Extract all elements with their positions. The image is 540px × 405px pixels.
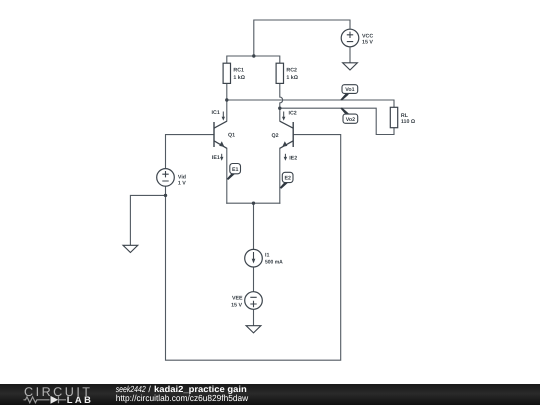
svg-text:500 mA: 500 mA	[265, 259, 283, 265]
svg-text:Q1: Q1	[228, 133, 235, 139]
svg-text:IE1: IE1	[212, 155, 220, 161]
svg-text:1 kΩ: 1 kΩ	[233, 75, 245, 81]
svg-text:110 Ω: 110 Ω	[401, 119, 416, 125]
svg-text:LAB: LAB	[67, 394, 91, 405]
svg-text:VCC: VCC	[362, 33, 373, 39]
svg-text:Q2: Q2	[272, 133, 279, 139]
svg-text:http://circuitlab.com/cz6u829f: http://circuitlab.com/cz6u829fh5daw	[116, 393, 249, 403]
svg-text:RC2: RC2	[286, 67, 297, 73]
svg-text:E1: E1	[232, 167, 239, 173]
svg-text:Vo1: Vo1	[345, 87, 354, 93]
svg-text:VEE: VEE	[232, 296, 243, 302]
svg-text:RC1: RC1	[233, 67, 244, 73]
svg-text:1 kΩ: 1 kΩ	[286, 75, 298, 81]
svg-text:1 V: 1 V	[178, 180, 186, 186]
svg-text:Vo2: Vo2	[346, 117, 355, 123]
svg-text:15 V: 15 V	[231, 302, 242, 308]
svg-text:RL: RL	[401, 113, 409, 119]
svg-text:I1: I1	[265, 252, 269, 258]
svg-text:15 V: 15 V	[362, 40, 373, 46]
svg-text:IC2: IC2	[289, 111, 297, 117]
svg-text:IC1: IC1	[212, 110, 220, 116]
svg-text:E2: E2	[284, 176, 291, 182]
svg-text:IE2: IE2	[289, 156, 297, 162]
